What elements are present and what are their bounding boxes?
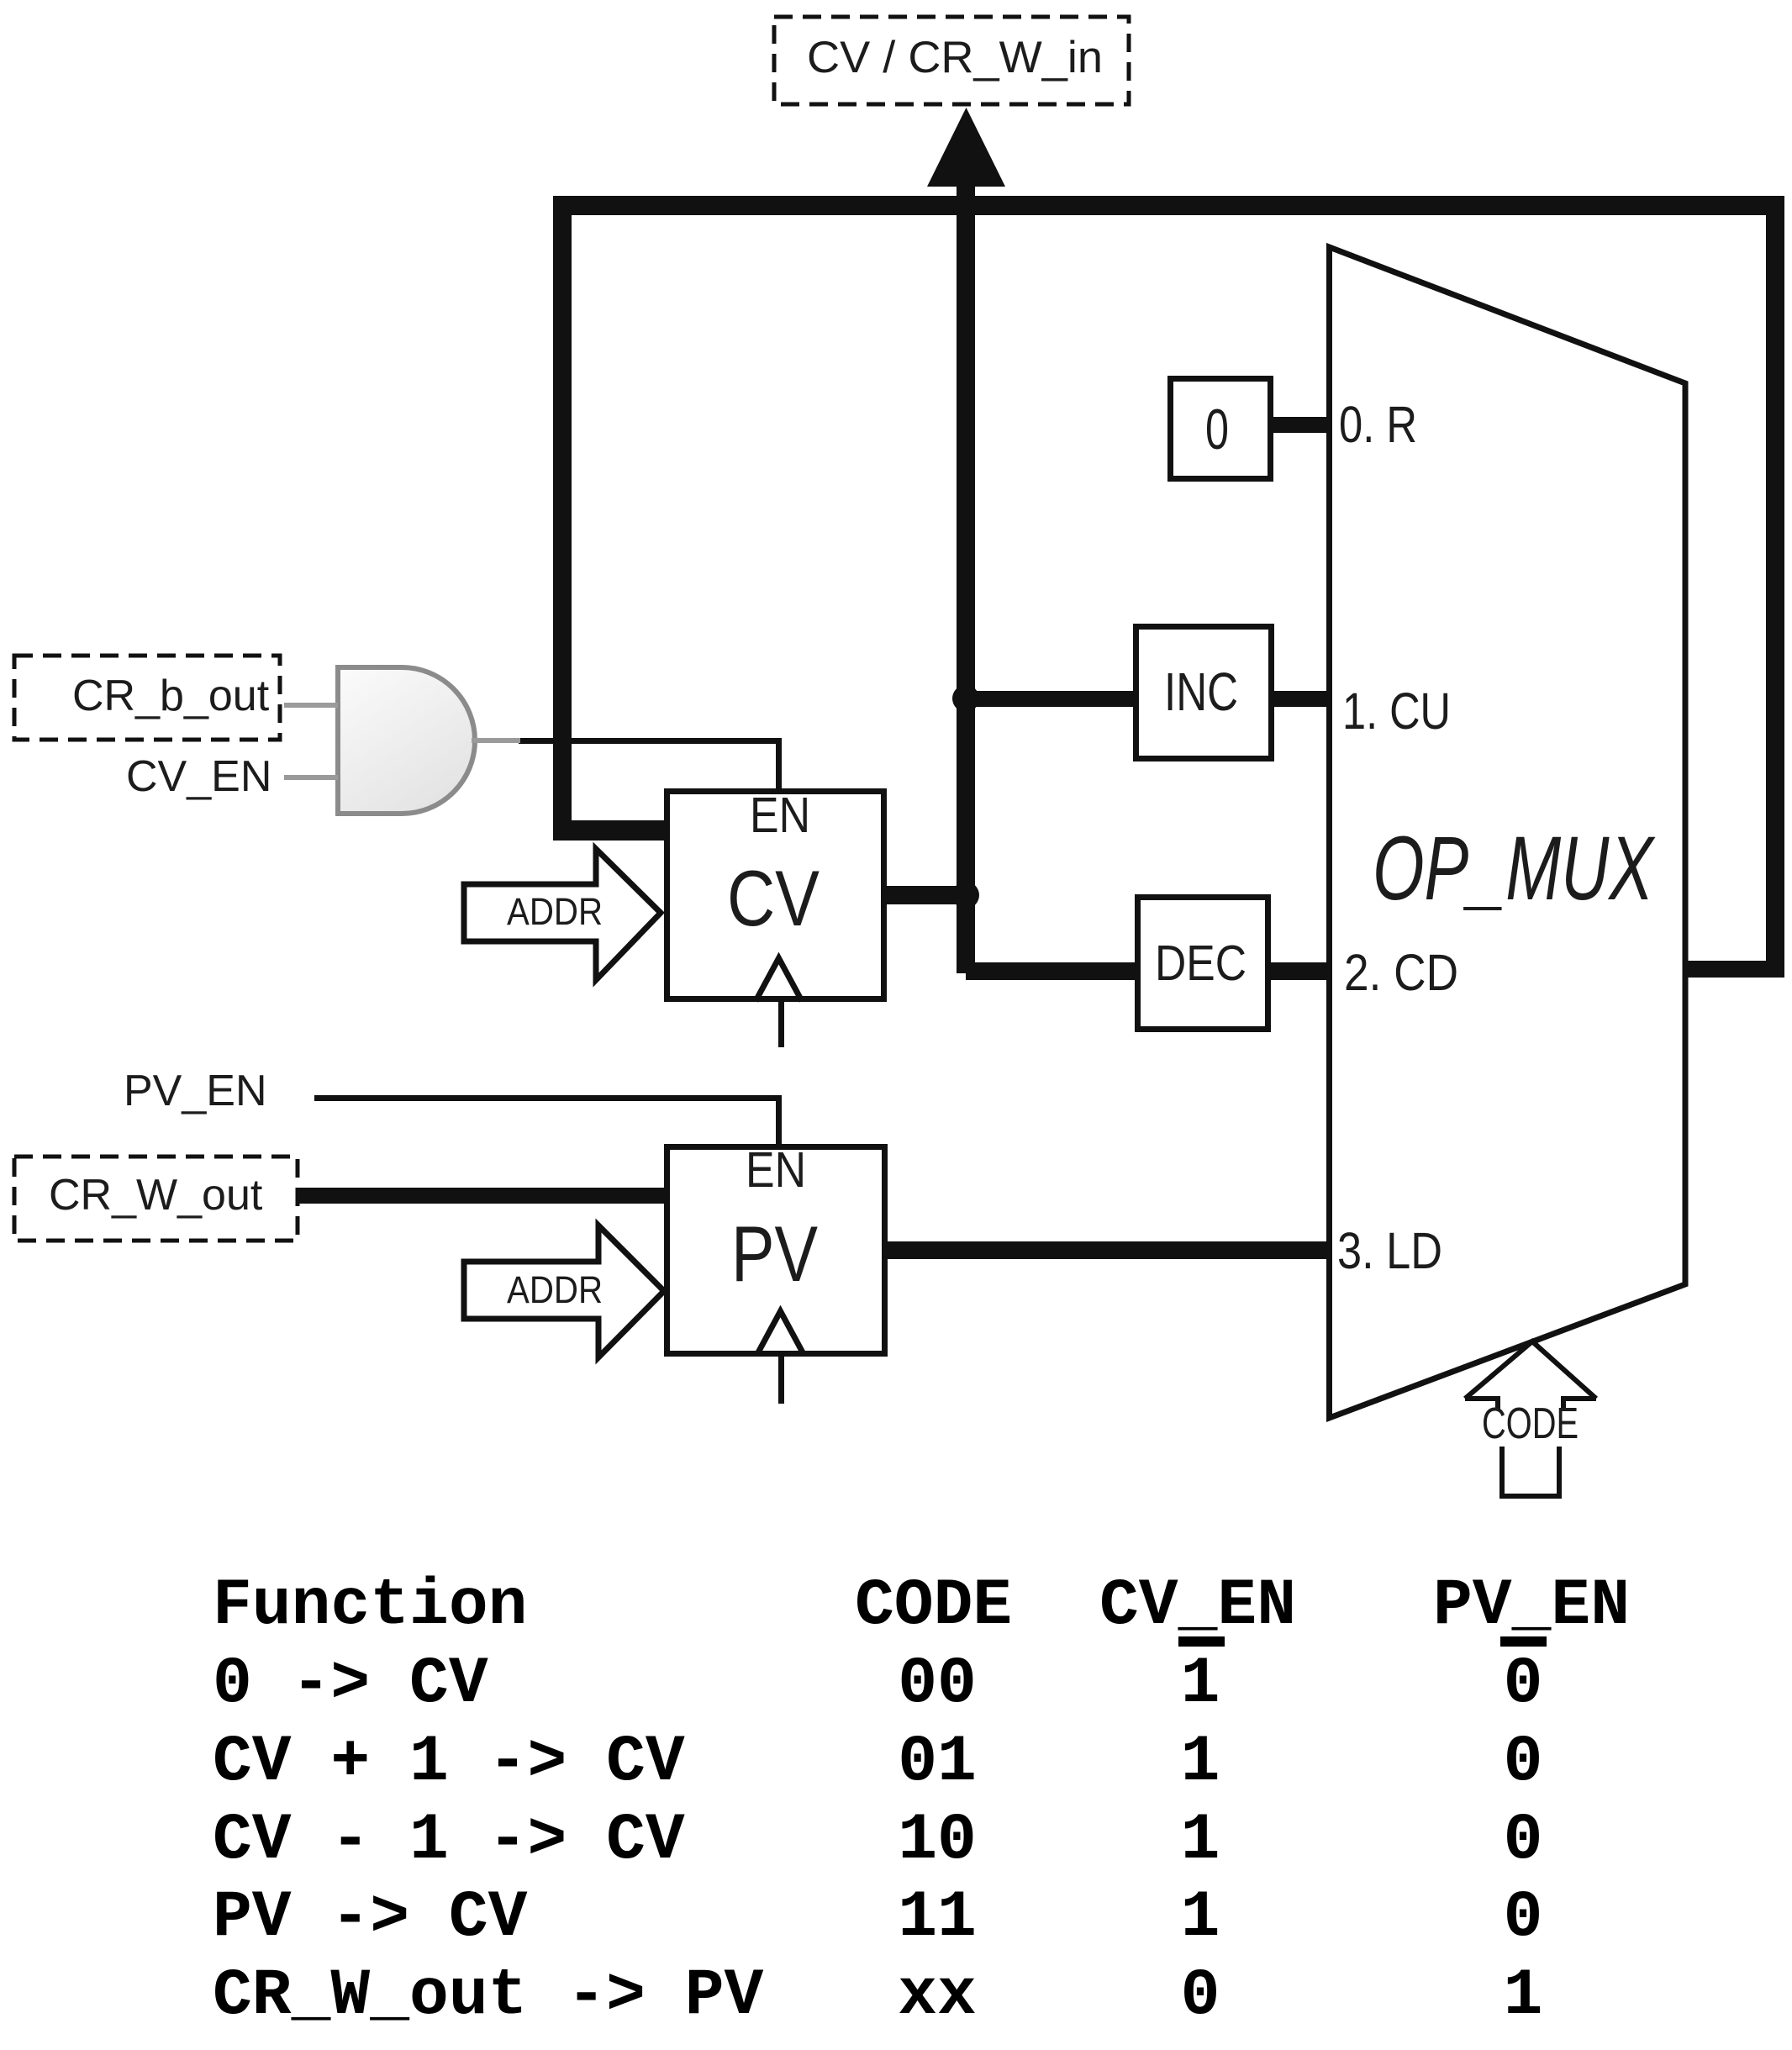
register PV box — [667, 1147, 885, 1354]
svg-text:INC: INC — [1164, 661, 1238, 722]
svg-text:OP_MUX: OP_MUX — [1373, 817, 1656, 919]
wire OP_MUX output to right bus — [1685, 961, 1784, 978]
block DEC box — [1138, 898, 1268, 1030]
svg-text:CV + 1 -> CV: CV + 1 -> CV — [213, 1726, 685, 1800]
svg-text:11: 11 — [898, 1881, 977, 1955]
svg-text:0: 0 — [1181, 1959, 1220, 2033]
wire right feedback bus vertical — [1766, 196, 1784, 978]
svg-text:ADDR: ADDR — [507, 890, 603, 933]
svg-text:PV -> CV: PV -> CV — [213, 1881, 528, 1955]
svg-text:CV_EN: CV_EN — [1099, 1569, 1296, 1643]
wire PV_EN to PV EN input — [314, 1095, 782, 1101]
wire AND output stub gray — [472, 738, 520, 743]
svg-text:1: 1 — [1181, 1647, 1220, 1721]
svg-text:0: 0 — [1504, 1804, 1543, 1878]
svg-text:CODE: CODE — [855, 1569, 1012, 1643]
wire CV output to bus — [887, 886, 975, 904]
clock triangle of PV — [757, 1311, 804, 1354]
ADDR arrow into PV — [464, 1225, 664, 1357]
wire DEC to mux pin 2 — [1269, 962, 1330, 980]
svg-text:xx: xx — [898, 1959, 977, 2033]
wire CV_EN to AND input — [284, 775, 338, 780]
AND gate U1 body — [338, 667, 475, 814]
svg-text:0 -> CV: 0 -> CV — [213, 1647, 488, 1721]
svg-text:1: 1 — [1181, 1804, 1220, 1878]
svg-text:CR_b_out: CR_b_out — [72, 672, 270, 720]
svg-text:0: 0 — [1504, 1726, 1543, 1800]
op-amp mux OP_MUX trapezoid body — [1330, 247, 1686, 1418]
wire bus to INC — [966, 691, 1135, 707]
svg-text:CV: CV — [727, 854, 820, 942]
wire 0 box to mux pin 0 — [1272, 417, 1330, 433]
svg-text:0: 0 — [1504, 1647, 1543, 1721]
wire CR_b_out to AND input — [284, 703, 338, 708]
junction dot bus-INC — [952, 685, 979, 712]
svg-text:00: 00 — [898, 1647, 977, 1721]
svg-text:PV_EN: PV_EN — [124, 1067, 267, 1115]
svg-text:CR_W_out -> PV: CR_W_out -> PV — [213, 1959, 763, 2033]
svg-text:2. CD: 2. CD — [1344, 944, 1458, 1001]
wire CR_W_out to PV — [299, 1188, 664, 1204]
svg-text:ADDR: ADDR — [507, 1268, 603, 1311]
svg-text:1: 1 — [1504, 1959, 1543, 2033]
svg-text:CR_W_out: CR_W_out — [49, 1171, 263, 1220]
svg-text:CV_EN: CV_EN — [126, 752, 271, 801]
svg-text:01: 01 — [898, 1726, 977, 1800]
CODE entry arrow into mux — [1465, 1341, 1596, 1496]
constant 0 box — [1171, 379, 1271, 479]
arrowhead to CV / CR_W_in — [927, 108, 1005, 187]
dashed box CV / CR_W_in — [774, 17, 1129, 104]
svg-text:CV - 1 -> CV: CV - 1 -> CV — [213, 1804, 685, 1878]
svg-text:PV_EN: PV_EN — [1433, 1569, 1630, 1643]
dashed box CR_W_out — [14, 1157, 298, 1241]
wire PV clock stub — [778, 1357, 784, 1404]
svg-text:PV: PV — [731, 1209, 818, 1298]
svg-text:10: 10 — [898, 1804, 977, 1878]
svg-text:Function: Function — [213, 1569, 527, 1643]
dashed box CR_b_out — [14, 656, 280, 740]
ADDR arrow into CV — [464, 849, 661, 980]
wire CV clock stub — [778, 1002, 784, 1047]
svg-text:0: 0 — [1504, 1881, 1543, 1955]
svg-text:EN: EN — [746, 1142, 806, 1198]
wire AND output thin black to CV EN — [519, 738, 782, 744]
junction dot bus-CV output — [952, 882, 979, 909]
svg-text:1. CU: 1. CU — [1342, 682, 1451, 740]
svg-text:DEC: DEC — [1155, 935, 1246, 991]
block INC box — [1136, 627, 1272, 759]
svg-text:0. R: 0. R — [1339, 396, 1417, 453]
register CV box — [667, 792, 884, 999]
wire left feedback bus vertical — [553, 196, 572, 841]
table overline above PV_EN value row 1 — [1500, 1636, 1547, 1647]
clock triangle of CV — [756, 958, 802, 1001]
svg-text:1: 1 — [1181, 1881, 1220, 1955]
svg-text:CV / CR_W_in: CV / CR_W_in — [807, 33, 1103, 82]
wire bus to DEC — [966, 962, 1136, 980]
svg-text:CODE: CODE — [1482, 1399, 1579, 1448]
svg-text:3. LD: 3. LD — [1337, 1222, 1442, 1279]
wire top feedback bus horizontal — [553, 196, 1784, 215]
svg-text:1: 1 — [1181, 1726, 1220, 1800]
svg-text:EN: EN — [750, 788, 810, 843]
wire main vertical bus — [957, 186, 975, 973]
table overline above CV_EN value row 1 — [1178, 1636, 1225, 1647]
wire PV output to mux pin 3 — [888, 1241, 1330, 1259]
wire thick into CV EN side — [553, 820, 664, 841]
wire INC to mux pin 1 — [1273, 691, 1330, 707]
svg-text:0: 0 — [1205, 398, 1229, 461]
